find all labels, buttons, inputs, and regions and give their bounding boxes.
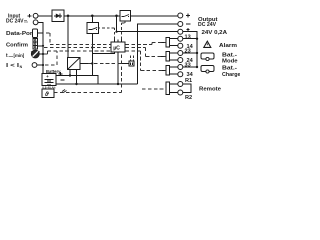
icon bat charge: [201, 66, 214, 74]
node bus-charger: [67, 15, 70, 18]
small indicator box: [129, 61, 134, 66]
data port connector: [33, 29, 38, 38]
uC ground line: [117, 52, 119, 84]
microcontroller U1: [111, 42, 125, 52]
terminal output -: [178, 22, 183, 27]
svg-text:Mode: Mode: [222, 59, 238, 65]
terminal input +: [33, 13, 38, 18]
svg-text:DC 24V: DC 24V: [198, 22, 217, 28]
svg-text:R1: R1: [185, 78, 192, 84]
relay contact K3 33/34: [160, 66, 178, 76]
uC pins top: [115, 40, 122, 43]
battery + rail: [56, 75, 92, 77]
wire to indicator box: [122, 63, 129, 65]
terminal output +: [178, 13, 183, 18]
label Bat.-Mode: [222, 53, 238, 65]
wire input- to left rail: [38, 22, 43, 74]
dashed confirm route: [44, 47, 111, 49]
remote input R1/R2 box: [166, 82, 178, 95]
polarity - output: [186, 23, 190, 25]
terminal confirm a: [33, 39, 37, 42]
polarity + aux: [186, 28, 189, 31]
svg-text:23: 23: [185, 49, 191, 55]
svg-text:Confirm: Confirm: [6, 42, 29, 48]
node uC ground on rail: [117, 83, 119, 85]
node aux corner: [115, 31, 117, 33]
terminal 34: [178, 72, 183, 77]
wire charger feed: [67, 16, 69, 58]
dashed uC to K1: [126, 43, 166, 45]
polarity + input: [28, 14, 32, 18]
label I < In: [6, 63, 23, 69]
dashed uC to switch B: [122, 21, 126, 40]
label Bat.-Charge: [222, 66, 241, 79]
dashed knob route: [44, 51, 111, 54]
svg-text:µC: µC: [113, 46, 120, 52]
relay contact K1 13/14: [158, 37, 178, 47]
svg-text:I < I: I < I: [6, 63, 20, 69]
dashed charger ctrl line: [80, 63, 88, 65]
svg-text:ϑ: ϑ: [44, 91, 49, 98]
battery - rail: [56, 83, 138, 85]
terminal input -: [33, 20, 38, 25]
svg-text:[min]: [min]: [14, 53, 25, 58]
polarity + battery: [59, 72, 63, 76]
relay contact K2 23/24: [160, 52, 178, 62]
wire output minus riser: [138, 24, 178, 84]
wire knob to rail: [39, 53, 43, 55]
jog to ground bus: [92, 76, 98, 85]
svg-text:Remote: Remote: [199, 86, 221, 92]
wire main + bus: [64, 15, 120, 17]
dashed remote control line: [142, 88, 166, 90]
wire main + bus after switch: [131, 15, 178, 17]
wire 33 to bus: [183, 66, 197, 68]
wire aux to bus: [183, 32, 197, 67]
dashed data-port route: [38, 32, 44, 34]
terminal R2: [178, 90, 183, 95]
dashed uC to switch A: [99, 28, 115, 40]
wire 13 to bus: [183, 38, 197, 40]
wire charger to - rail: [76, 70, 78, 85]
diode D1 box: [52, 10, 64, 22]
terminal aux +: [178, 29, 183, 34]
selector knob t: [31, 48, 40, 58]
icon bat mode: [201, 53, 214, 61]
wire switchA lower junction: [91, 62, 93, 64]
wire switchA down: [91, 34, 93, 76]
uC supply from switch A: [92, 52, 114, 53]
battery B1 box: [42, 74, 56, 86]
terminal 23: [178, 51, 183, 56]
switch S1 box: [87, 16, 99, 34]
battery symbol small marks: [62, 90, 67, 93]
terminal 24: [178, 58, 183, 63]
terminal 13: [178, 36, 183, 41]
svg-text:Charge: Charge: [222, 72, 240, 78]
label Input DC 24V: [6, 14, 28, 25]
svg-text:R2: R2: [185, 95, 192, 101]
terminal confirm c: [33, 45, 37, 48]
node bus-aux: [115, 15, 118, 18]
svg-text:33: 33: [185, 63, 191, 69]
dashed uC to remote: [121, 55, 123, 93]
terminal I<In: [32, 63, 37, 68]
polarity + output: [186, 14, 190, 18]
indicator box top pins: [131, 56, 134, 62]
svg-text:Bat.-: Bat.-: [222, 66, 237, 72]
dashed uC to K2: [126, 48, 166, 57]
svg-text:Alarm: Alarm: [219, 43, 238, 49]
dashed uC to K3: [126, 51, 166, 71]
external remote jumper: [183, 84, 191, 93]
dashed I<In route: [45, 51, 57, 65]
terminal confirm b: [33, 42, 37, 45]
terminal 14: [178, 43, 183, 48]
temperature sensor box: [42, 89, 54, 98]
node bus-switchA: [91, 15, 94, 18]
charger DC/DC box: [68, 58, 81, 70]
wire I<In: [37, 64, 43, 66]
wire aux branch: [117, 16, 178, 32]
svg-text:13: 13: [185, 34, 191, 40]
dashed theta route: [54, 92, 122, 94]
node switchA control tap: [91, 46, 93, 48]
wire input+ to diode: [38, 15, 52, 17]
alarm triangle: [204, 41, 211, 47]
switch S2 box: [120, 11, 131, 22]
svg-text:24V 0,2A: 24V 0,2A: [202, 30, 228, 36]
svg-text:Data-Port: Data-Port: [6, 31, 35, 37]
terminal 33: [178, 65, 183, 70]
wire confirm: [37, 45, 43, 47]
terminal R1: [178, 82, 183, 87]
svg-text:DC 24V: DC 24V: [6, 19, 24, 25]
polarity - battery: [60, 79, 64, 81]
wire 23 to bus: [183, 52, 197, 54]
wire charger to + rail: [69, 70, 71, 76]
label Output DC 24V: [198, 17, 218, 28]
